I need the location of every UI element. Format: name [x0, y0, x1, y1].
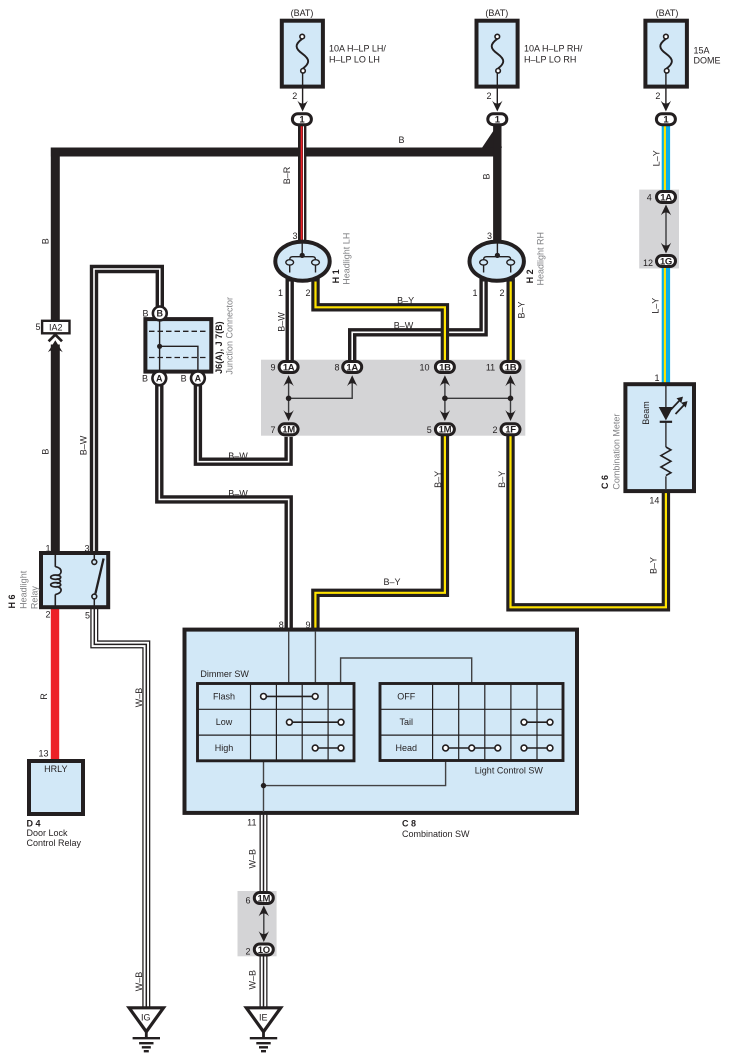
svg-text:3: 3	[292, 231, 297, 241]
svg-text:1A: 1A	[660, 192, 672, 203]
svg-text:B–W: B–W	[276, 312, 286, 332]
svg-text:B–Y: B–Y	[383, 577, 400, 587]
wire W-B connector 2 1O to ground IE	[260, 956, 268, 1008]
svg-text:L–Y: L–Y	[651, 150, 661, 166]
light control SW head contact right	[521, 745, 553, 751]
svg-text:14: 14	[649, 496, 659, 506]
svg-text:B: B	[142, 373, 148, 383]
light control SW tail contact	[521, 719, 553, 725]
fuse 2 output lead	[496, 73, 498, 104]
svg-text:Headlight LH: Headlight LH	[341, 233, 351, 285]
headlight RH H2 body	[470, 242, 524, 281]
band arrow up into 8 1A	[347, 375, 357, 386]
right band arrow down into 1G	[661, 243, 671, 254]
svg-text:B–W: B–W	[228, 451, 248, 461]
combination SW internal wire pin 9	[314, 632, 316, 684]
connector oval 1 (fuse 2)	[488, 114, 507, 126]
connector oval 2 1O	[254, 944, 273, 956]
svg-text:8: 8	[334, 363, 339, 373]
svg-text:D 4: D 4	[27, 819, 41, 829]
svg-text:1M: 1M	[257, 893, 270, 904]
wire B-R fuse 1 to headlight LH pin 3	[302, 126, 304, 245]
svg-text:7: 7	[270, 425, 275, 435]
svg-text:B–Y: B–Y	[433, 471, 443, 488]
svg-text:Door Lock: Door Lock	[27, 828, 69, 838]
svg-text:1A: 1A	[346, 362, 358, 373]
svg-text:H 2: H 2	[525, 269, 535, 283]
svg-text:B–Y: B–Y	[516, 301, 526, 318]
svg-text:B: B	[481, 173, 491, 179]
connector oval 9 1A	[279, 362, 298, 374]
connector oval 2 1F	[501, 424, 520, 436]
wire B bus horizontal	[51, 148, 499, 157]
svg-text:2: 2	[305, 288, 310, 298]
wire R relay pin 2 to door lock relay pin 13	[51, 607, 59, 762]
combination SW internal wire dimmer to light control	[341, 658, 472, 684]
svg-text:B: B	[142, 308, 148, 318]
svg-text:2: 2	[486, 91, 491, 101]
band bus 10 1B to 11 1B	[445, 397, 511, 399]
svg-text:10: 10	[419, 363, 429, 373]
svg-text:2: 2	[292, 91, 297, 101]
svg-text:IA2: IA2	[49, 323, 63, 333]
wire B-Y headlight RH pin 2 to connector 11 1B	[507, 273, 515, 361]
svg-text:12: 12	[643, 258, 653, 268]
headlight relay H6 box	[41, 553, 108, 607]
combination SW internal wire light control to junction	[264, 761, 446, 786]
junction connector terminal B	[153, 307, 167, 321]
svg-text:1: 1	[278, 288, 283, 298]
svg-text:13: 13	[38, 749, 48, 759]
svg-text:Flash: Flash	[213, 691, 235, 701]
wire B left vertical (fuse bus to relay pin 1)	[51, 148, 60, 322]
svg-text:1B: 1B	[439, 362, 451, 373]
band arrow down into 2 1F	[505, 410, 515, 421]
svg-text:H–LP LO RH: H–LP LO RH	[524, 54, 576, 64]
svg-text:1O: 1O	[258, 945, 270, 956]
svg-text:L–Y: L–Y	[650, 298, 660, 314]
svg-text:5: 5	[85, 611, 90, 621]
wire B-Y headlight LH pin 2 to connector 10 1B	[316, 273, 445, 361]
combination SW C8 box	[185, 630, 578, 813]
svg-text:DOME: DOME	[694, 56, 721, 66]
combination SW internal junction node	[261, 783, 266, 788]
svg-text:8: 8	[279, 620, 284, 630]
svg-text:Headlight: Headlight	[19, 570, 29, 609]
fuse box 10A H-LP RH	[477, 21, 518, 87]
svg-text:B: B	[40, 449, 50, 455]
svg-text:Head: Head	[396, 743, 418, 753]
wire B fuse 2 to headlight RH pin 3	[493, 126, 501, 245]
wire L-Y fuse 3 to connector 1A	[665, 125, 666, 191]
fuse box 10A H-LP LH	[282, 21, 323, 87]
svg-text:(BAT): (BAT)	[656, 8, 679, 18]
wire B-W junction connector A to combination SW pin 8	[159, 385, 288, 630]
fuse 3 arrow	[661, 101, 671, 112]
band arrow up into 10 1B	[440, 375, 450, 386]
svg-text:1: 1	[45, 544, 50, 554]
svg-text:Relay: Relay	[29, 586, 39, 610]
band arrow up into 9 1A	[283, 375, 293, 386]
svg-text:J6(A), J 7(B): J6(A), J 7(B)	[214, 321, 224, 374]
svg-text:High: High	[215, 743, 234, 753]
door lock control relay D4 box	[29, 761, 83, 814]
svg-text:B–Y: B–Y	[397, 295, 414, 305]
bottom band arrow up into 1M	[259, 906, 269, 917]
svg-text:Combination SW: Combination SW	[402, 829, 470, 839]
svg-text:W–B: W–B	[134, 688, 144, 708]
connector oval 7 1M	[279, 424, 298, 436]
dimmer SW high contact	[312, 745, 344, 751]
svg-text:C 6: C 6	[600, 475, 610, 489]
dimmer SW flash contact	[261, 694, 319, 700]
svg-text:H 1: H 1	[331, 269, 341, 283]
right band link 1A to 1G	[665, 208, 667, 250]
svg-text:H 6: H 6	[7, 594, 17, 608]
wire B-W headlight RH pin 1 to connector 8 1A	[352, 273, 483, 361]
svg-text:B–Y: B–Y	[648, 557, 658, 574]
fuse 1 output lead	[302, 73, 304, 104]
svg-text:B–W: B–W	[228, 489, 248, 499]
svg-text:B: B	[398, 135, 404, 145]
connector oval 6 1M	[254, 893, 273, 905]
wire junction bevel at fuse 2 output	[482, 125, 502, 148]
svg-text:Light Control SW: Light Control SW	[475, 766, 544, 776]
IA2 connector	[42, 321, 69, 334]
svg-text:B–W: B–W	[394, 321, 414, 331]
svg-text:3: 3	[487, 231, 492, 241]
wire B-W headlight LH pin 1 to connector 9 1A	[286, 273, 294, 361]
svg-text:1F: 1F	[505, 425, 516, 436]
light control SW head contact left	[443, 745, 501, 751]
svg-text:2: 2	[45, 610, 50, 620]
svg-text:(BAT): (BAT)	[291, 8, 314, 18]
connector oval 5 1M	[435, 424, 454, 436]
svg-text:B–Y: B–Y	[497, 471, 507, 488]
svg-text:W–B: W–B	[134, 972, 144, 992]
svg-text:B: B	[40, 238, 50, 244]
connector band 1M/1O (bottom gray)	[238, 891, 277, 956]
fuse 3 output lead	[665, 73, 667, 104]
connector band 1A/1G (right gray)	[639, 190, 679, 269]
bottom band link 1M to 1O	[263, 908, 265, 940]
svg-text:C 8: C 8	[402, 819, 416, 829]
svg-text:A: A	[195, 374, 202, 384]
svg-text:Dimmer SW: Dimmer SW	[200, 669, 249, 679]
svg-text:1B: 1B	[505, 362, 517, 373]
junction connector J6(A) J7(B) box	[145, 319, 211, 372]
svg-text:IE: IE	[259, 1012, 268, 1022]
svg-text:9: 9	[305, 620, 310, 630]
wire B-W relay pin 3 to junction connector B	[94, 269, 160, 554]
svg-text:W–B: W–B	[247, 849, 257, 869]
combination SW internal wire dimmer to pin 11	[263, 761, 265, 812]
ground IE	[246, 1008, 280, 1051]
svg-text:10A H–LP RH/: 10A H–LP RH/	[524, 44, 583, 54]
svg-text:2: 2	[499, 288, 504, 298]
svg-text:Low: Low	[216, 717, 233, 727]
band arrow down into 7 1M	[283, 410, 293, 421]
band link 8 1A drop	[289, 380, 353, 398]
combination SW internal wire pin 8	[288, 632, 290, 684]
fuse 1 arrow	[297, 101, 307, 112]
light control SW table	[380, 684, 563, 761]
svg-text:4: 4	[647, 193, 652, 203]
svg-text:10A H–LP LH/: 10A H–LP LH/	[329, 44, 386, 54]
band node at 9 1A column	[286, 396, 292, 402]
svg-text:6: 6	[245, 896, 250, 906]
wire W-B relay pin 5 to ground IG	[94, 607, 146, 1008]
connector oval 8 1A	[343, 362, 362, 374]
svg-text:R: R	[39, 693, 49, 700]
ground IG	[129, 1008, 163, 1051]
right band arrow up into 1A	[661, 205, 671, 216]
svg-text:B–R: B–R	[282, 166, 292, 184]
svg-text:A: A	[156, 374, 163, 384]
svg-text:HRLY: HRLY	[44, 764, 67, 774]
wire B-Y connector 2 1F to combination meter pin 14	[511, 436, 666, 607]
dimmer SW low contact	[287, 719, 344, 725]
connector band shield (middle gray)	[261, 360, 525, 436]
svg-text:2: 2	[245, 946, 250, 956]
connector oval 11 1B	[501, 362, 520, 374]
connector oval 12 1G	[657, 256, 676, 268]
connector oval 4 1A	[657, 192, 676, 204]
wire B-Y connector 5 1M to combination SW pin 9	[315, 436, 445, 630]
svg-text:2: 2	[655, 91, 660, 101]
svg-text:9: 9	[270, 363, 275, 373]
connector oval 1 (fuse 1)	[292, 114, 311, 126]
IA2 chevron arrows	[48, 335, 63, 353]
connector oval 10 1B	[435, 362, 454, 374]
band link 11 1B to 2 1F	[510, 380, 512, 416]
svg-text:1A: 1A	[283, 362, 295, 373]
band link 10 1B to 5 1M	[444, 380, 446, 416]
fuse box 15A DOME	[645, 21, 687, 87]
svg-text:OFF: OFF	[397, 691, 415, 701]
svg-text:2: 2	[492, 425, 497, 435]
svg-text:11: 11	[247, 818, 256, 828]
svg-text:IG: IG	[141, 1012, 151, 1022]
junction connector terminal A left	[152, 371, 166, 385]
svg-text:Control Relay: Control Relay	[27, 838, 82, 848]
bottom band arrow down into 1O	[259, 931, 269, 942]
svg-text:W–B: W–B	[247, 970, 257, 990]
wire B-W junction connector A to connector 7 1M	[198, 385, 289, 462]
svg-text:5: 5	[427, 425, 432, 435]
svg-text:1G: 1G	[660, 256, 672, 267]
svg-text:1M: 1M	[282, 425, 295, 436]
svg-text:Combination Meter: Combination Meter	[611, 414, 621, 490]
band arrow down into 5 1M	[440, 410, 450, 421]
wire W-B combination SW pin 11 to connector 6 1M	[260, 813, 268, 892]
headlight LH H1 body	[275, 242, 329, 281]
band node at 11 1B column	[508, 396, 514, 402]
svg-text:Headlight RH: Headlight RH	[535, 232, 545, 286]
connector oval 1 (fuse 3)	[656, 114, 675, 126]
svg-text:3: 3	[84, 544, 89, 554]
svg-text:1: 1	[472, 288, 477, 298]
svg-text:1: 1	[654, 373, 659, 383]
svg-text:Tail: Tail	[400, 717, 414, 727]
fuse 2 arrow	[492, 101, 502, 112]
svg-text:11: 11	[486, 363, 495, 373]
wire L-Y connector 1G to combination meter pin 1	[665, 268, 666, 385]
combination meter C6 box	[625, 384, 694, 491]
band link 9 1A to 7 1M	[288, 380, 290, 416]
svg-text:B: B	[157, 309, 164, 319]
band arrow up into 11 1B	[505, 375, 515, 386]
junction connector terminal A right	[191, 371, 205, 385]
svg-text:Beam: Beam	[641, 401, 651, 425]
svg-text:1M: 1M	[439, 425, 452, 436]
svg-text:5: 5	[35, 322, 40, 332]
svg-text:Junction Connector: Junction Connector	[224, 297, 234, 375]
dimmer SW table	[198, 684, 355, 761]
svg-text:B: B	[181, 373, 187, 383]
svg-text:H–LP LO LH: H–LP LO LH	[329, 54, 380, 64]
svg-text:B–W: B–W	[78, 435, 88, 455]
svg-text:15A: 15A	[694, 46, 710, 56]
svg-text:(BAT): (BAT)	[485, 8, 508, 18]
band node at 10 1B column	[442, 396, 448, 402]
